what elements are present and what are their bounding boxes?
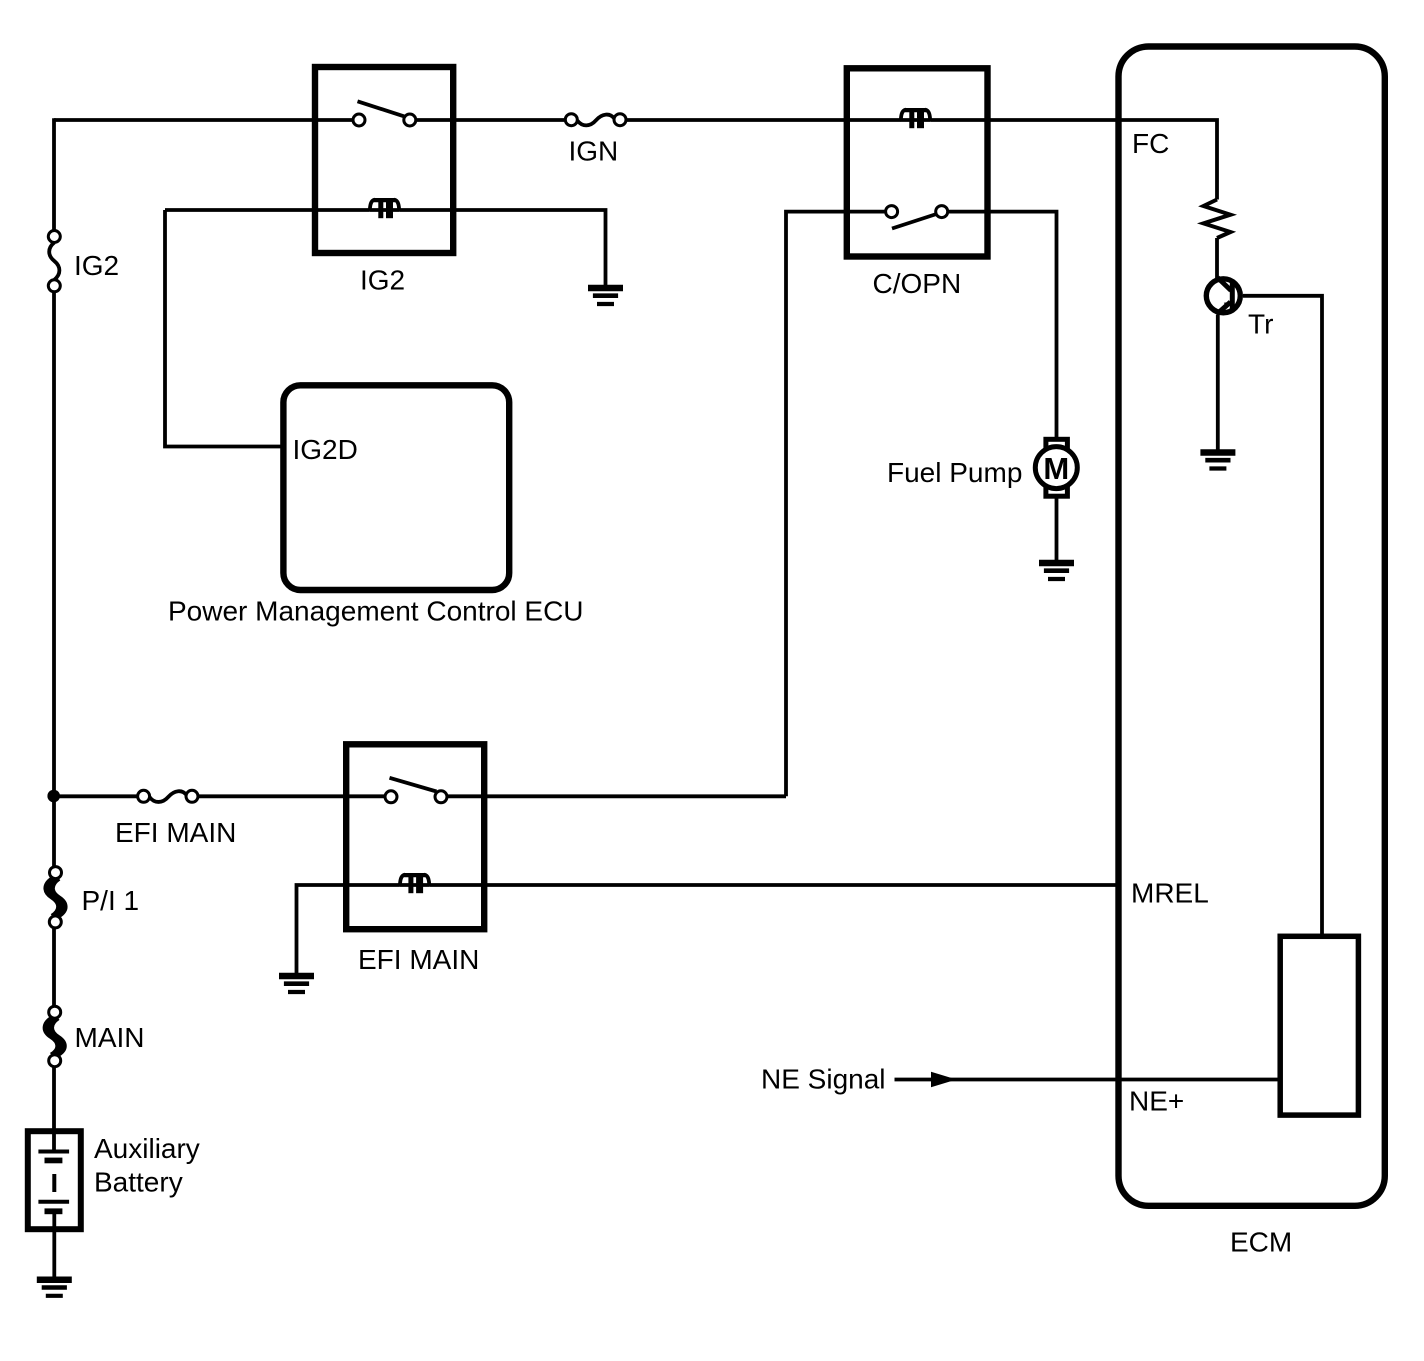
ground (EFI MAIN coil)	[279, 976, 314, 992]
svg-text:IG2D: IG2D	[293, 434, 358, 465]
wire: IG2 coil to ground	[399, 210, 605, 288]
resistor (FC circuit)	[1204, 200, 1231, 239]
svg-text:C/OPN: C/OPN	[873, 268, 962, 299]
ECM box	[1119, 47, 1385, 1206]
ground (IG2 relay coil)	[588, 288, 623, 304]
wire: battery negative to ground	[52, 1214, 56, 1280]
wire: left B+ vertical, mid segment	[52, 292, 56, 867]
svg-text:NE+: NE+	[1129, 1086, 1184, 1117]
svg-text:MAIN: MAIN	[75, 1022, 145, 1053]
wire: NE signal into NE+ pin	[895, 1072, 1281, 1087]
junction node (B+ tap)	[47, 790, 60, 803]
fuse IGN	[565, 114, 626, 126]
relay EFI MAIN box	[346, 744, 484, 929]
svg-text:ECM: ECM	[1230, 1227, 1292, 1258]
wire: transistor base to ECM connector	[1243, 296, 1322, 938]
wire: EFI MAIN coil to ground	[297, 885, 400, 976]
svg-text:IG2: IG2	[360, 265, 405, 296]
svg-text:NE Signal: NE Signal	[761, 1064, 886, 1095]
ground (battery)	[37, 1280, 72, 1296]
svg-text:Power Management Control ECU: Power Management Control ECU	[168, 596, 584, 627]
wire: left B+ vertical, top segment	[52, 118, 56, 230]
ground (transistor emitter)	[1200, 453, 1235, 469]
wire: junction to EFI MAIN fuse	[54, 794, 138, 798]
fuel pump motor M	[1035, 439, 1077, 496]
wire: C/OPN coil into ECM (FC line)	[930, 120, 1217, 200]
wire: IG2 switch to IGN fuse	[416, 118, 566, 122]
wire: fuel pump to ground	[1055, 497, 1059, 564]
wire: left B+ vertical between P/I 1 and MAIN	[52, 928, 56, 1006]
wire: MAIN fuse to battery	[52, 1067, 56, 1152]
fuse EFI MAIN	[138, 790, 198, 802]
svg-text:MREL: MREL	[1131, 878, 1209, 909]
svg-text:P/I 1: P/I 1	[82, 885, 140, 916]
wire: battery B+ to IG2 relay (top feed y=120)	[54, 118, 353, 122]
relay C/OPN box	[847, 68, 988, 256]
transistor Tr	[1206, 278, 1240, 315]
wire: C/OPN switch to fuel pump	[948, 212, 1057, 439]
wire: transistor emitter to ground	[1216, 315, 1220, 453]
wire: IG2 relay coil to IG2D pin of PMC ECU	[165, 210, 370, 447]
label Auxiliary Battery	[94, 1133, 200, 1198]
svg-text:Tr: Tr	[1248, 309, 1273, 340]
Power Management Control ECU box	[283, 385, 509, 590]
wire: C/OPN switch to EFI MAIN relay (down x=786)	[786, 212, 886, 797]
ECM connector block	[1280, 936, 1358, 1115]
svg-text:EFI MAIN: EFI MAIN	[115, 817, 236, 848]
svg-text:FC: FC	[1132, 128, 1169, 159]
wire: EFI MAIN fuse to relay switch	[198, 794, 385, 798]
ground (fuel pump)	[1039, 563, 1074, 579]
svg-text:M: M	[1043, 451, 1069, 486]
relay IG2 switch	[353, 101, 416, 126]
wire: EFI MAIN switch to C/OPN relay	[447, 794, 786, 798]
svg-text:IG2: IG2	[74, 250, 119, 281]
relay EFI MAIN switch	[385, 778, 447, 803]
relay C/OPN switch	[886, 206, 948, 229]
wire: EFI MAIN coil to MREL pin	[429, 883, 1120, 887]
relay EFI MAIN coil	[400, 875, 429, 894]
relay C/OPN coil	[901, 110, 930, 129]
svg-text:EFI MAIN: EFI MAIN	[358, 944, 479, 975]
fuse P/I 1 (fusible link)	[46, 867, 66, 928]
svg-text:Battery: Battery	[94, 1167, 183, 1198]
wire: IGN fuse to C/OPN coil	[626, 118, 901, 122]
relay IG2 coil	[370, 200, 399, 219]
relay IG2 box	[315, 67, 453, 253]
battery Auxiliary	[28, 1131, 81, 1229]
svg-text:Auxiliary: Auxiliary	[94, 1133, 200, 1164]
fuse MAIN (fusible link)	[45, 1006, 65, 1066]
wire: resistor to transistor collector	[1215, 238, 1219, 278]
svg-text:Fuel Pump: Fuel Pump	[887, 457, 1022, 488]
svg-text:IGN: IGN	[569, 136, 619, 167]
fuse IG2	[48, 231, 60, 292]
